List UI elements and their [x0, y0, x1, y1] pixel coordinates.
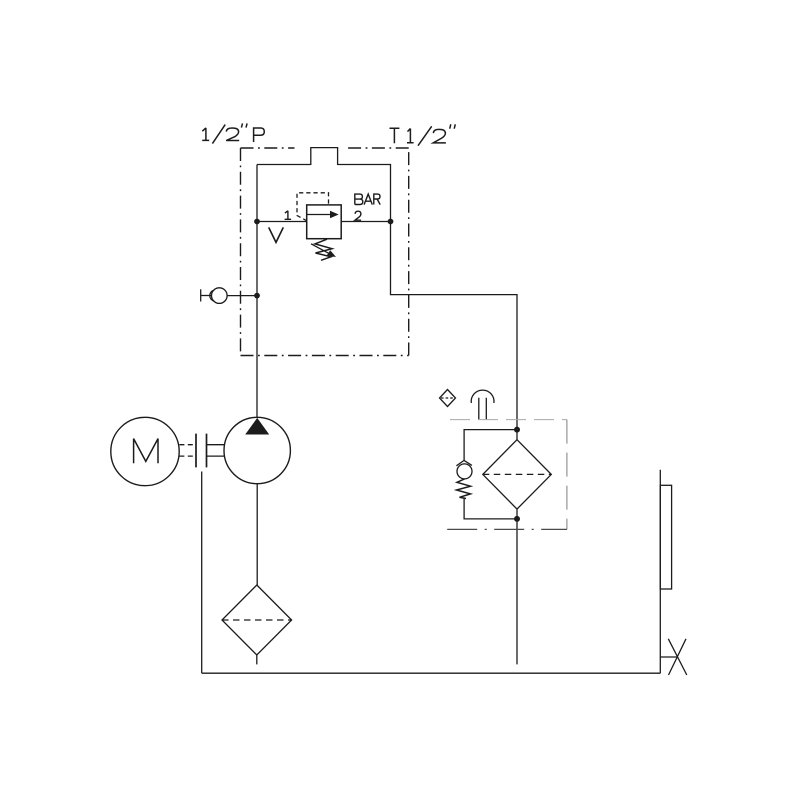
drain valve X [668, 639, 687, 675]
relief valve flow arrow [307, 214, 331, 216]
junction node return filter inlet [514, 427, 520, 433]
test point coupling stub tick [200, 289, 202, 301]
air filter element dashes [441, 397, 454, 399]
junction node valve outlet [388, 219, 394, 225]
suction filter element (dashed) [222, 619, 292, 621]
junction node return filter outlet [514, 516, 520, 522]
label V [269, 227, 284, 242]
tank right riser [659, 470, 661, 674]
P port notch on enclosure top [311, 148, 338, 165]
bypass branch top wire [464, 430, 517, 461]
wire: notch to tank-side vertical [338, 165, 391, 222]
pump P1 circle [224, 417, 290, 483]
air filter small diamond [440, 390, 456, 407]
return filter element (dashed) [483, 473, 552, 475]
tank assembly boundary top (dashed) [450, 419, 567, 421]
return filter F2 diamond [483, 440, 552, 509]
shaft coupling bars [196, 434, 207, 468]
motor letter M [134, 439, 158, 464]
tank bottom return line [202, 672, 661, 674]
relief valve adjustment arrow [311, 244, 332, 255]
wire: valve port 1 [257, 221, 307, 223]
check valve ball [457, 464, 472, 479]
wire: top horizontal to notch [257, 164, 311, 166]
wire: pump suction [256, 484, 258, 585]
tank assembly boundary bottom (dash-dot) [447, 528, 567, 530]
label T port [390, 124, 456, 145]
label port 2 [355, 211, 361, 220]
relief valve V1 body [307, 205, 342, 239]
breather pipes [479, 398, 487, 420]
shaft coupling dashed shaft [179, 445, 196, 456]
wire: pump pressure line (vertical through enclosure to pump) [256, 165, 258, 418]
check valve spring [457, 479, 471, 499]
wire: test point to pressure line [227, 295, 257, 297]
wire: valve port 2 [341, 221, 390, 223]
junction node gauge [254, 293, 260, 299]
relief valve spring [315, 239, 332, 260]
test point gauge circle [212, 288, 228, 304]
level gauge rectangle [660, 485, 671, 589]
wire: return filter to tank [516, 509, 518, 664]
label port 1 [285, 211, 292, 220]
suction filter F1 diamond [222, 585, 292, 655]
test point small arc [210, 290, 214, 301]
return filter inlet stub [516, 430, 518, 440]
manifold enclosure (dash-dot box) [241, 148, 409, 356]
relief valve pilot line (dashed) [297, 193, 329, 221]
tank assembly boundary right (dashed) [566, 420, 568, 530]
junction node valve inlet [254, 219, 260, 225]
motor M1 circle [111, 417, 179, 485]
breather cap arc [471, 390, 494, 403]
bypass branch bottom wire [464, 498, 517, 519]
wire: tank return from valve outlet to return filter [391, 222, 518, 430]
shaft coupling solid shaft [207, 445, 225, 456]
pump outlet triangle [245, 418, 269, 435]
drain valve stub [660, 656, 677, 658]
suction filter tank stub [256, 655, 258, 664]
check valve seat [456, 460, 472, 465]
test point line [201, 295, 212, 297]
label BAR [355, 194, 380, 205]
case drain line [201, 472, 203, 674]
label P port [202, 123, 264, 143]
